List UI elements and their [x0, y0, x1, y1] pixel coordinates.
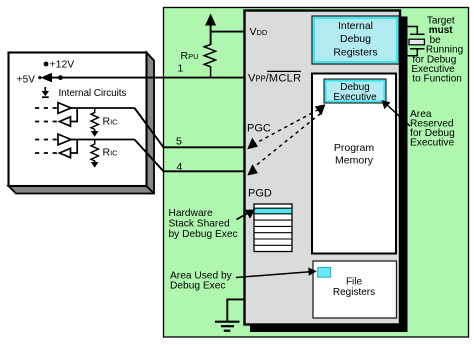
- ground (RIC1): [91, 131, 99, 137]
- crystal symbol: [401, 27, 425, 56]
- svg-text:Internal: Internal: [338, 20, 373, 32]
- PIC MCU body: [245, 11, 401, 325]
- ground (chip VSS): [215, 322, 240, 331]
- svg-text:1: 1: [178, 63, 184, 75]
- buffer A1 input dashes: [35, 107, 57, 109]
- wire pin1 from +5V arrow to chip VPP: [50, 77, 245, 79]
- File Registers box: [313, 261, 397, 318]
- arrow to Debug Executive box: [386, 104, 411, 127]
- wire chip VSS to ground: [227, 299, 244, 321]
- VDD arrow (supply): [205, 14, 216, 26]
- resistor RPU: [204, 45, 215, 78]
- svg-text:Debug Exec: Debug Exec: [170, 281, 226, 292]
- buffer A1: [58, 103, 71, 114]
- ground arrow symbol (board common): [42, 87, 49, 97]
- svg-text:Executive: Executive: [333, 92, 377, 103]
- wire buffer A3 output: [71, 139, 135, 141]
- resistor RIC1: [91, 108, 98, 131]
- wire buffer A1 output: [71, 107, 135, 109]
- junction dot on +5V wire: [58, 75, 63, 80]
- dashed arrow PGC to program memory corner: [252, 110, 319, 146]
- svg-text:File: File: [346, 277, 363, 288]
- svg-text:Hardware: Hardware: [169, 208, 213, 219]
- wire VDD: [210, 23, 212, 45]
- buffer A4 input dashes: [35, 152, 57, 154]
- svg-text:Memory: Memory: [335, 155, 374, 167]
- svg-text:Executive: Executive: [410, 138, 455, 149]
- arrow to file registers cyan area: [236, 272, 310, 278]
- annotation: Area Used by Debug Exec: [170, 271, 233, 292]
- svg-text:Registers: Registers: [333, 287, 375, 298]
- stack cyan row: [255, 208, 292, 214]
- svg-text:+12V: +12V: [50, 59, 75, 71]
- wire diagonal to pin 4: [135, 140, 245, 172]
- ground (RIC2): [91, 162, 99, 168]
- Internal Debug Registers box: [312, 16, 399, 64]
- buffer A3: [58, 134, 71, 145]
- wire to buffer A4: [71, 140, 78, 154]
- svg-text:to Function: to Function: [412, 74, 461, 85]
- svg-text:Debug: Debug: [340, 33, 371, 45]
- svg-text:Internal Circuits: Internal Circuits: [59, 88, 127, 99]
- svg-text:4: 4: [177, 161, 183, 173]
- svg-text:Registers: Registers: [333, 47, 377, 59]
- annotation: Hardware Stack Shared by Debug Exec: [169, 208, 238, 240]
- svg-text:by Debug Exec: by Debug Exec: [169, 229, 238, 240]
- target board box corner bevel: [147, 186, 155, 194]
- file registers cyan area: [318, 267, 331, 277]
- buffer A3 input dashes: [35, 139, 57, 141]
- svg-text:VDD: VDD: [250, 26, 268, 38]
- resistor RIC2: [91, 140, 98, 163]
- svg-text:RIC: RIC: [103, 147, 119, 159]
- wire diagonal to pin 5: [135, 108, 245, 147]
- annotation: Target must be Running...: [411, 16, 463, 85]
- buffer A2 (faces left): [60, 117, 71, 126]
- svg-text:Stack Shared: Stack Shared: [169, 219, 230, 230]
- svg-text:5: 5: [176, 136, 182, 148]
- overline over MCLR: [267, 70, 301, 72]
- wire to buffer A2: [71, 108, 78, 122]
- svg-text:PGC: PGC: [247, 123, 271, 135]
- buffer A4 (faces left): [60, 148, 71, 157]
- green highlight panel: [164, 8, 469, 338]
- buffer A2 input dashes: [35, 121, 57, 123]
- Debug Executive box: [324, 79, 386, 103]
- svg-text:VPP/MCLR: VPP/MCLR: [248, 73, 301, 85]
- stack row lines: [254, 208, 292, 245]
- arrowhead into program memory corner: [315, 104, 326, 115]
- +5V arrow: [38, 76, 41, 79]
- arrow to hardware stack: [237, 213, 249, 220]
- target board box front face: [9, 53, 147, 187]
- svg-text:PGD: PGD: [248, 188, 272, 200]
- hardware stack box: [254, 204, 292, 252]
- PIC MCU shadow: [250, 17, 408, 333]
- svg-text:Program: Program: [334, 142, 375, 154]
- annotation: Area Reserved for Debug Executive: [410, 109, 455, 149]
- Program Memory box: [312, 74, 396, 254]
- +12V supply dot: [44, 62, 49, 67]
- dashed arrow PGD to program memory corner: [251, 114, 321, 170]
- svg-text:RPU: RPU: [181, 50, 199, 62]
- svg-text:+5V: +5V: [17, 75, 35, 86]
- target board box 3D side faces: [9, 53, 155, 194]
- svg-text:RIC: RIC: [103, 116, 119, 128]
